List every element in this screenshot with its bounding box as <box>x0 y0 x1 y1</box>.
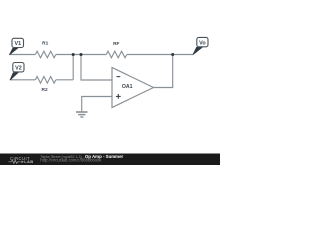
svg-text:RF: RF <box>113 41 119 47</box>
svg-text:LAB: LAB <box>24 159 33 164</box>
svg-text:R2: R2 <box>42 87 48 93</box>
svg-text:R1: R1 <box>42 41 48 47</box>
svg-text:V1: V1 <box>15 41 22 47</box>
svg-text:V2: V2 <box>15 65 22 71</box>
svg-text:OA1: OA1 <box>122 84 133 90</box>
svg-text:Vo: Vo <box>199 40 206 46</box>
svg-text:http://circuitlab.com/c/8888b8: http://circuitlab.com/c/8888b8u8k <box>40 158 102 163</box>
